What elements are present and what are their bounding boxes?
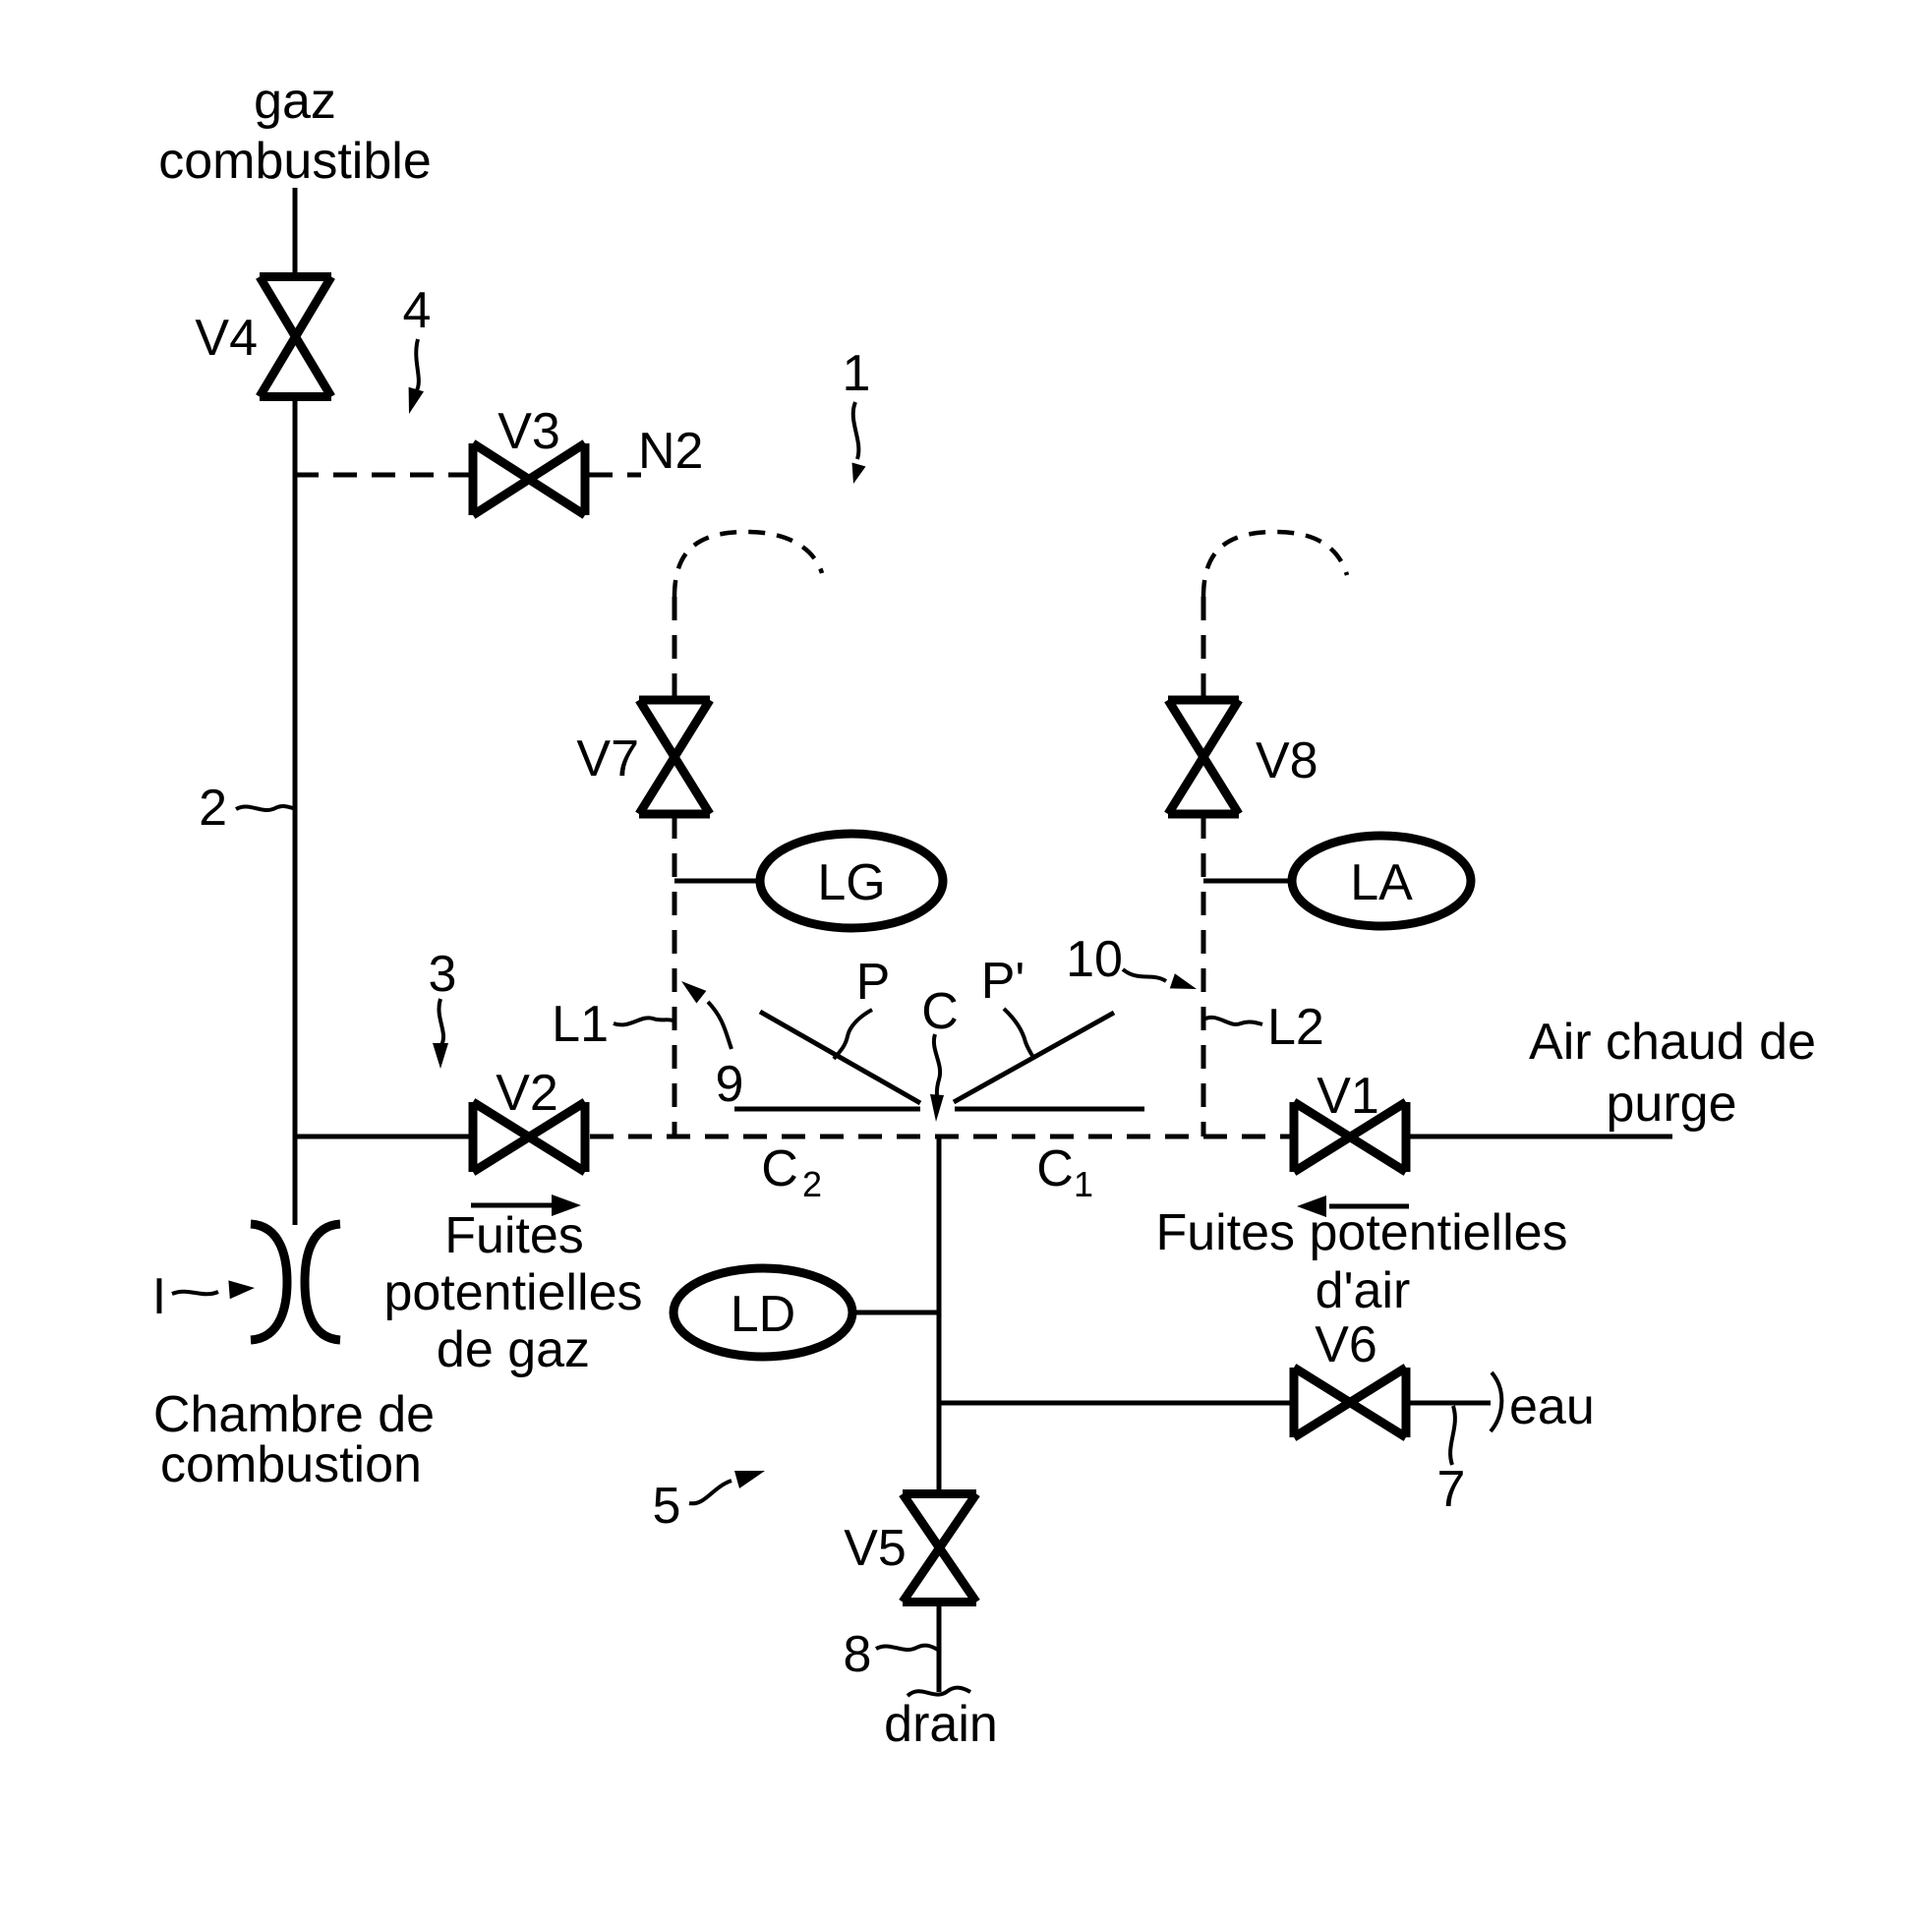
svg-text:L1: L1	[552, 996, 609, 1053]
svg-text:LG: LG	[817, 854, 885, 911]
svg-text:V8: V8	[1256, 732, 1318, 789]
svg-text:LD: LD	[731, 1286, 795, 1343]
svg-text:L2: L2	[1267, 999, 1324, 1056]
svg-text:eau: eau	[1509, 1378, 1595, 1435]
svg-text:7: 7	[1437, 1461, 1466, 1518]
svg-text:d'air: d'air	[1316, 1262, 1411, 1319]
svg-text:combustible: combustible	[158, 133, 431, 190]
svg-text:4: 4	[403, 282, 432, 339]
svg-text:V1: V1	[1317, 1068, 1379, 1125]
svg-text:1: 1	[1074, 1164, 1093, 1204]
svg-text:C: C	[921, 983, 959, 1040]
svg-text:de gaz: de gaz	[437, 1321, 590, 1378]
svg-text:V6: V6	[1315, 1316, 1377, 1373]
svg-text:Fuites: Fuites	[444, 1207, 584, 1264]
svg-text:V4: V4	[195, 310, 258, 367]
svg-text:drain: drain	[884, 1696, 998, 1753]
svg-text:9: 9	[716, 1056, 744, 1113]
svg-text:10: 10	[1066, 931, 1123, 988]
svg-text:LA: LA	[1350, 854, 1413, 911]
svg-text:P: P	[856, 954, 891, 1011]
svg-text:I: I	[152, 1268, 166, 1325]
svg-text:C: C	[761, 1140, 798, 1197]
svg-text:1: 1	[843, 345, 871, 402]
svg-text:purge: purge	[1607, 1076, 1737, 1133]
svg-text:V3: V3	[498, 403, 560, 460]
svg-text:C: C	[1036, 1140, 1074, 1197]
svg-text:gaz: gaz	[254, 73, 336, 130]
svg-text:combustion: combustion	[160, 1436, 422, 1493]
svg-text:V7: V7	[576, 730, 639, 787]
svg-text:V5: V5	[844, 1520, 907, 1577]
svg-text:N2: N2	[638, 423, 703, 480]
svg-text:2: 2	[199, 780, 227, 837]
svg-text:3: 3	[429, 946, 457, 1003]
svg-text:5: 5	[653, 1478, 681, 1535]
svg-text:Chambre de: Chambre de	[153, 1386, 435, 1443]
svg-text:Fuites potentielles: Fuites potentielles	[1155, 1204, 1567, 1261]
svg-text:Air chaud de: Air chaud de	[1529, 1014, 1816, 1071]
svg-text:V2: V2	[496, 1065, 558, 1122]
svg-text:8: 8	[844, 1626, 872, 1683]
svg-text:potentielles: potentielles	[383, 1264, 642, 1321]
svg-text:P': P'	[981, 953, 1025, 1010]
svg-text:2: 2	[802, 1164, 822, 1204]
